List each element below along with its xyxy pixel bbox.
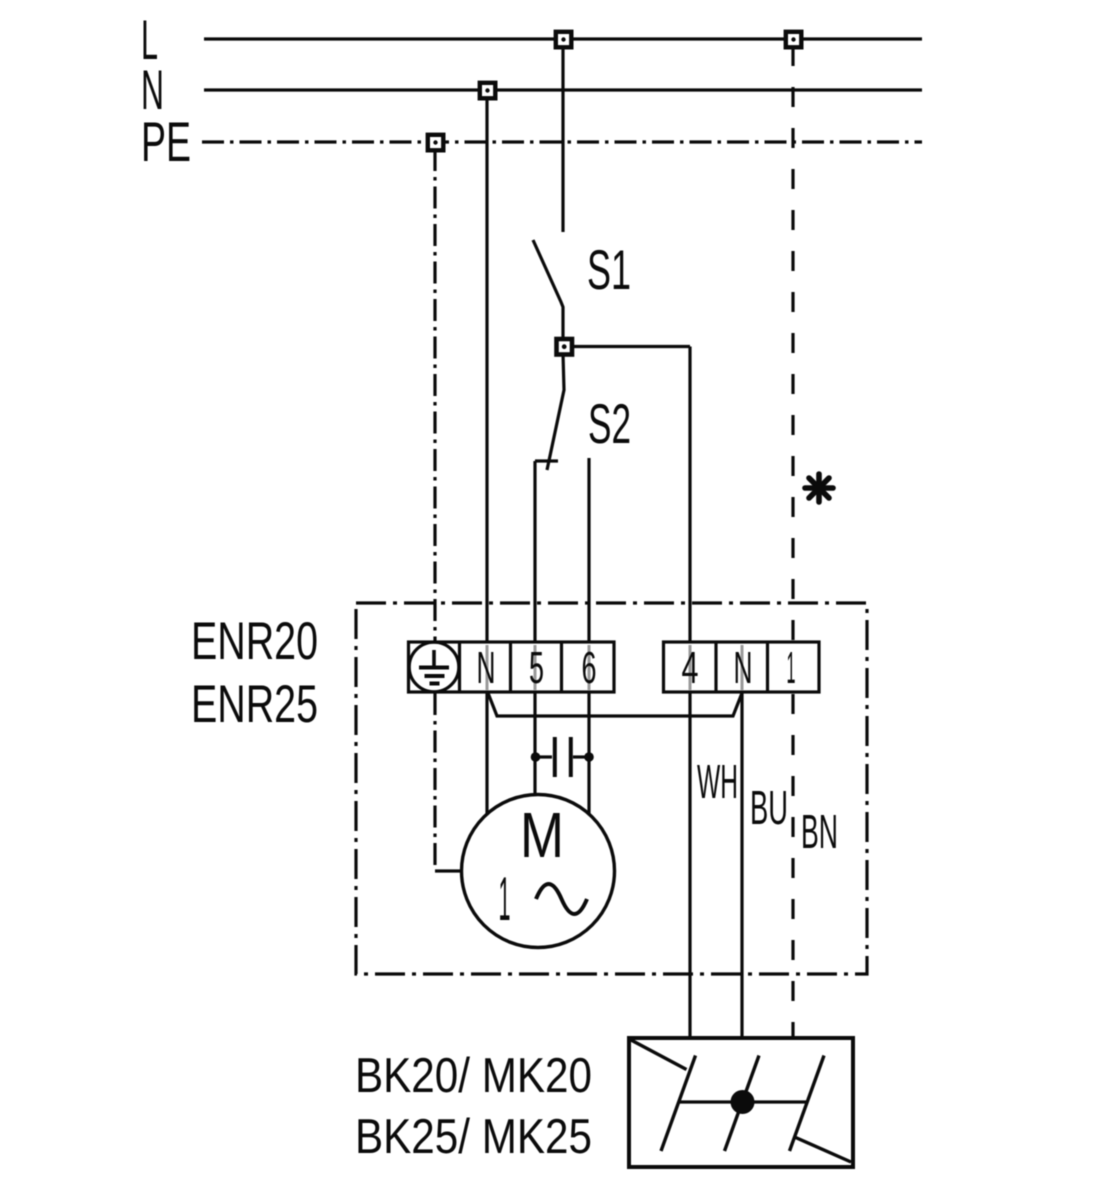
wire PE rail (dash-dot) <box>202 140 922 143</box>
wire terminal 6 to motor <box>587 692 590 814</box>
svg-text:ENR25: ENR25 <box>191 675 318 734</box>
svg-text:1: 1 <box>499 865 511 934</box>
node on PE rail <box>428 135 444 151</box>
wire right N down to shutter <box>740 692 743 1039</box>
svg-text:BN: BN <box>801 806 838 859</box>
wire N bus link (left N to right N) <box>488 693 742 716</box>
svg-text:4: 4 <box>682 642 699 693</box>
shutter axis <box>679 1100 807 1103</box>
svg-text:BK20/ MK20: BK20/ MK20 <box>355 1049 592 1103</box>
wire PE to ground terminal (dash-dot) <box>433 149 436 642</box>
capacitor junction dot right <box>584 752 594 762</box>
switch S2 <box>547 354 564 471</box>
svg-text:S1: S1 <box>587 238 631 301</box>
enclosure ENR20/ENR25 (dash-dot box) <box>356 603 867 974</box>
svg-text:S2: S2 <box>588 392 631 455</box>
capacitor C <box>535 737 589 777</box>
svg-text:M: M <box>520 799 564 871</box>
wire dashed from L to terminal 1 <box>791 46 794 642</box>
wire L rail <box>204 37 922 40</box>
wire S2 contact to terminal 5 <box>533 461 536 643</box>
wire PE to motor frame (dash-dot + tick) <box>433 693 436 871</box>
motor M1~ <box>462 795 615 948</box>
shutter slat 1 <box>661 1056 696 1152</box>
wire terminal 4 down to shutter <box>688 692 691 1039</box>
ground terminal symbol <box>409 642 459 692</box>
wire N rail <box>204 88 922 91</box>
shutter axis dot <box>731 1090 755 1114</box>
shutter corner link top-left <box>631 1040 687 1070</box>
wire to terminal 6 <box>587 458 590 643</box>
shutter slat 3 <box>790 1056 825 1152</box>
svg-text:N: N <box>477 642 496 693</box>
svg-text:WH: WH <box>697 756 738 809</box>
svg-text:BU: BU <box>750 782 788 835</box>
node on L rail at S1 feed <box>556 32 572 48</box>
S2 fixed contact tick <box>535 459 558 462</box>
asterisk note <box>805 474 833 502</box>
wire N rail to terminal N <box>485 97 488 643</box>
svg-text:5: 5 <box>529 642 544 693</box>
svg-text:1: 1 <box>787 642 796 693</box>
wire from L to S1 <box>561 46 564 232</box>
svg-text:N: N <box>734 642 753 693</box>
wire dashed down to shutter <box>791 694 794 1039</box>
capacitor junction dot left <box>531 752 541 762</box>
svg-text:ENR20: ENR20 <box>191 612 318 671</box>
switch S1 <box>533 240 563 340</box>
svg-text:PE: PE <box>141 110 191 173</box>
shutter slat 2 <box>725 1056 760 1152</box>
svg-text:BK25/ MK25: BK25/ MK25 <box>355 1110 592 1164</box>
terminal block left (PE N 5 6) <box>409 642 615 692</box>
terminal block right (4 N 1) <box>664 642 820 692</box>
wire terminal 5 to motor <box>533 692 536 796</box>
junction node below S1 <box>557 339 573 355</box>
shutter corner link bottom-right <box>795 1137 852 1162</box>
grey wire segments through terminal cells <box>487 645 742 690</box>
svg-text:6: 6 <box>582 642 597 693</box>
wire down to terminal 4 (vertical) <box>688 347 691 644</box>
wire terminal N to motor <box>485 692 488 815</box>
node on L rail at dashed feed <box>786 32 802 48</box>
motor sine symbol <box>536 884 587 914</box>
wire junction to terminal 4 (horizontal) <box>571 345 690 348</box>
node on N rail <box>480 83 496 99</box>
shutter BK/MK box <box>629 1038 853 1167</box>
